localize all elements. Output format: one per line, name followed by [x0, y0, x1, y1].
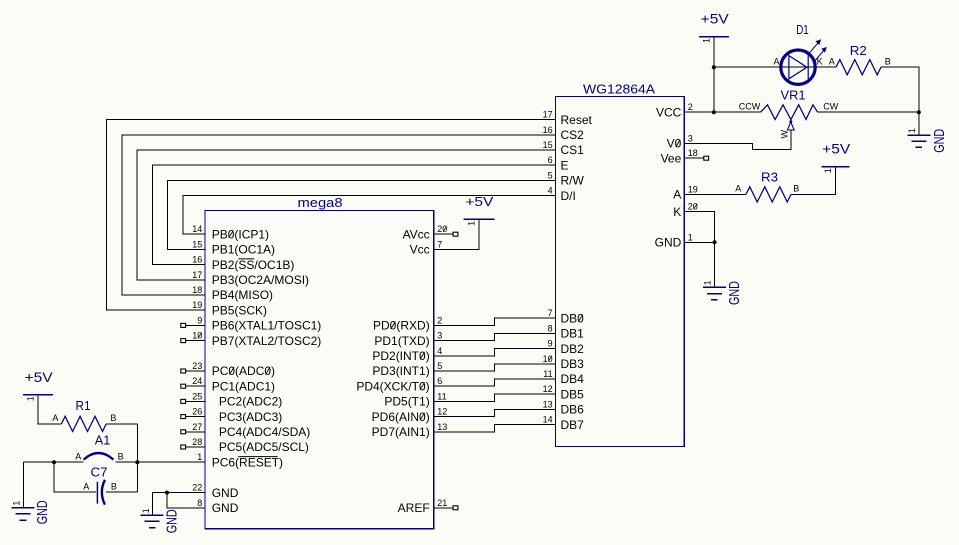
svg-text:PC2(ADC2): PC2(ADC2)	[219, 395, 282, 409]
svg-text:PC4(ADC4/SDA): PC4(ADC4/SDA)	[219, 425, 310, 439]
svg-text:AVcc: AVcc	[403, 227, 430, 241]
svg-text:1: 1	[823, 168, 833, 173]
svg-text:GND: GND	[931, 129, 948, 153]
svg-text:1: 1	[141, 508, 151, 513]
svg-text:4: 4	[548, 186, 553, 196]
svg-text:2: 2	[688, 102, 693, 112]
svg-text:26: 26	[192, 407, 202, 417]
svg-text:13: 13	[437, 422, 447, 432]
svg-text:AREF: AREF	[398, 501, 430, 515]
svg-text:GND: GND	[726, 281, 743, 305]
svg-text:A1: A1	[95, 432, 111, 447]
svg-text:GND: GND	[34, 500, 51, 524]
svg-text:Vee: Vee	[661, 151, 682, 165]
svg-text:10: 10	[192, 331, 202, 341]
svg-text:Vcc: Vcc	[410, 243, 430, 257]
svg-text:6: 6	[548, 155, 553, 165]
svg-text:7: 7	[437, 239, 442, 249]
svg-text:+5V: +5V	[701, 11, 730, 27]
svg-text:1: 1	[701, 38, 711, 43]
svg-text:A: A	[52, 413, 58, 423]
svg-text:+5V: +5V	[25, 369, 54, 385]
svg-text:D1: D1	[796, 22, 809, 37]
svg-text:11: 11	[543, 369, 552, 379]
svg-text:A: A	[735, 184, 741, 194]
svg-text:+5V: +5V	[822, 141, 851, 157]
svg-text:25: 25	[192, 391, 202, 401]
svg-text:PB3(OC2A/MOSI): PB3(OC2A/MOSI)	[212, 273, 309, 287]
svg-text:1: 1	[25, 396, 35, 401]
svg-text:17: 17	[543, 110, 553, 120]
svg-text:PD3(INT1): PD3(INT1)	[372, 364, 429, 378]
svg-text:DB7: DB7	[561, 418, 585, 432]
svg-text:GND: GND	[212, 486, 239, 500]
svg-text:14: 14	[543, 415, 553, 425]
svg-text:VCC: VCC	[656, 105, 682, 119]
svg-text:K: K	[817, 56, 823, 66]
svg-text:PB1(OC1A): PB1(OC1A)	[212, 243, 275, 257]
svg-text:17: 17	[192, 270, 202, 280]
svg-text:PB0(ICP1): PB0(ICP1)	[212, 227, 269, 241]
svg-text:1: 1	[907, 128, 917, 133]
svg-text:PD4(XCK/T0): PD4(XCK/T0)	[356, 379, 429, 393]
svg-text:20: 20	[688, 202, 698, 212]
svg-text:PD5(T1): PD5(T1)	[384, 395, 429, 409]
svg-text:W: W	[780, 130, 790, 139]
svg-text:A: A	[673, 188, 681, 202]
svg-text:7: 7	[548, 308, 553, 318]
svg-text:R1: R1	[76, 398, 91, 413]
svg-text:PB5(SCK): PB5(SCK)	[212, 303, 267, 317]
svg-text:PC5(ADC5/SCL): PC5(ADC5/SCL)	[219, 440, 309, 454]
svg-text:18: 18	[192, 285, 202, 295]
svg-text:DB2: DB2	[561, 342, 585, 356]
svg-text:CCW: CCW	[739, 102, 761, 112]
svg-text:10: 10	[543, 354, 553, 364]
svg-text:CS1: CS1	[561, 143, 585, 157]
svg-text:B: B	[118, 451, 124, 461]
svg-text:5: 5	[548, 170, 553, 180]
svg-text:14: 14	[192, 224, 202, 234]
svg-text:1: 1	[703, 280, 713, 285]
svg-text:PD6(AIN0): PD6(AIN0)	[372, 410, 430, 424]
svg-text:13: 13	[543, 399, 553, 409]
svg-text:24: 24	[192, 376, 202, 386]
svg-text:5: 5	[437, 361, 442, 371]
svg-text:DB5: DB5	[561, 387, 585, 401]
svg-text:CS2: CS2	[561, 128, 585, 142]
svg-text:VR1: VR1	[781, 87, 806, 102]
svg-text:15: 15	[192, 239, 202, 249]
svg-text:GND: GND	[212, 501, 239, 515]
svg-text:D/I: D/I	[561, 189, 576, 203]
svg-text:27: 27	[192, 422, 202, 432]
svg-text:18: 18	[688, 148, 698, 158]
svg-text:4: 4	[437, 346, 442, 356]
svg-text:8: 8	[548, 323, 553, 333]
svg-text:PC1(ADC1): PC1(ADC1)	[212, 379, 275, 393]
svg-text:1: 1	[197, 452, 202, 462]
svg-text:PB7(XTAL2/TOSC2): PB7(XTAL2/TOSC2)	[212, 334, 322, 348]
svg-text:R3: R3	[761, 169, 778, 184]
svg-text:DB1: DB1	[561, 327, 585, 341]
svg-text:DB3: DB3	[561, 357, 585, 371]
svg-text:R2: R2	[850, 43, 867, 58]
svg-text:E: E	[561, 158, 569, 172]
svg-text:PC0(ADC0): PC0(ADC0)	[212, 364, 275, 378]
svg-text:mega8: mega8	[298, 195, 343, 210]
svg-text:B: B	[885, 56, 891, 66]
svg-text:B: B	[111, 481, 117, 491]
svg-text:11: 11	[437, 391, 446, 401]
svg-text:12: 12	[437, 407, 447, 417]
svg-text:23: 23	[192, 361, 202, 371]
svg-text:C7: C7	[91, 465, 108, 480]
svg-text:3: 3	[437, 331, 442, 341]
svg-text:PC6(RESET): PC6(RESET)	[212, 455, 283, 469]
svg-text:12: 12	[543, 384, 553, 394]
svg-text:K: K	[673, 205, 681, 219]
svg-text:16: 16	[543, 125, 553, 135]
svg-text:WG12864A: WG12864A	[583, 82, 655, 97]
svg-text:20: 20	[437, 224, 447, 234]
svg-text:DB6: DB6	[561, 403, 585, 417]
svg-text:CW: CW	[823, 102, 838, 112]
svg-text:2: 2	[437, 315, 442, 325]
svg-text:19: 19	[688, 184, 698, 194]
svg-text:GND: GND	[655, 236, 682, 250]
svg-text:PD7(AIN1): PD7(AIN1)	[372, 425, 430, 439]
svg-text:19: 19	[192, 300, 202, 310]
svg-text:PB6(XTAL1/TOSC1): PB6(XTAL1/TOSC1)	[212, 319, 322, 333]
svg-text:B: B	[793, 184, 799, 194]
svg-text:PD0(RXD): PD0(RXD)	[373, 319, 430, 333]
svg-text:PB2(SS/OC1B): PB2(SS/OC1B)	[212, 258, 295, 272]
svg-text:Reset: Reset	[561, 113, 593, 127]
svg-text:PB4(MISO): PB4(MISO)	[212, 288, 273, 302]
svg-text:B: B	[110, 413, 116, 423]
svg-text:6: 6	[437, 376, 442, 386]
svg-text:A: A	[75, 451, 81, 461]
svg-text:21: 21	[437, 498, 447, 508]
svg-text:22: 22	[192, 483, 202, 493]
svg-text:1: 1	[12, 501, 22, 506]
svg-text:16: 16	[192, 255, 202, 265]
svg-text:8: 8	[197, 498, 202, 508]
svg-text:PD1(TXD): PD1(TXD)	[374, 334, 429, 348]
svg-text:GND: GND	[164, 509, 181, 533]
svg-text:9: 9	[197, 315, 202, 325]
svg-text:1: 1	[688, 232, 693, 242]
svg-text:A: A	[773, 56, 779, 66]
svg-text:PD2(INT0): PD2(INT0)	[372, 349, 429, 363]
svg-text:V0: V0	[667, 137, 682, 151]
svg-text:PC3(ADC3): PC3(ADC3)	[219, 410, 282, 424]
svg-text:+5V: +5V	[465, 194, 493, 209]
svg-text:A: A	[829, 56, 835, 66]
svg-text:28: 28	[192, 437, 202, 447]
svg-text:3: 3	[688, 134, 693, 144]
svg-text:1: 1	[467, 221, 477, 226]
svg-text:R/W: R/W	[561, 174, 585, 188]
svg-text:15: 15	[543, 140, 553, 150]
svg-text:DB4: DB4	[561, 372, 585, 386]
svg-text:9: 9	[548, 339, 553, 349]
svg-text:A: A	[83, 481, 89, 491]
